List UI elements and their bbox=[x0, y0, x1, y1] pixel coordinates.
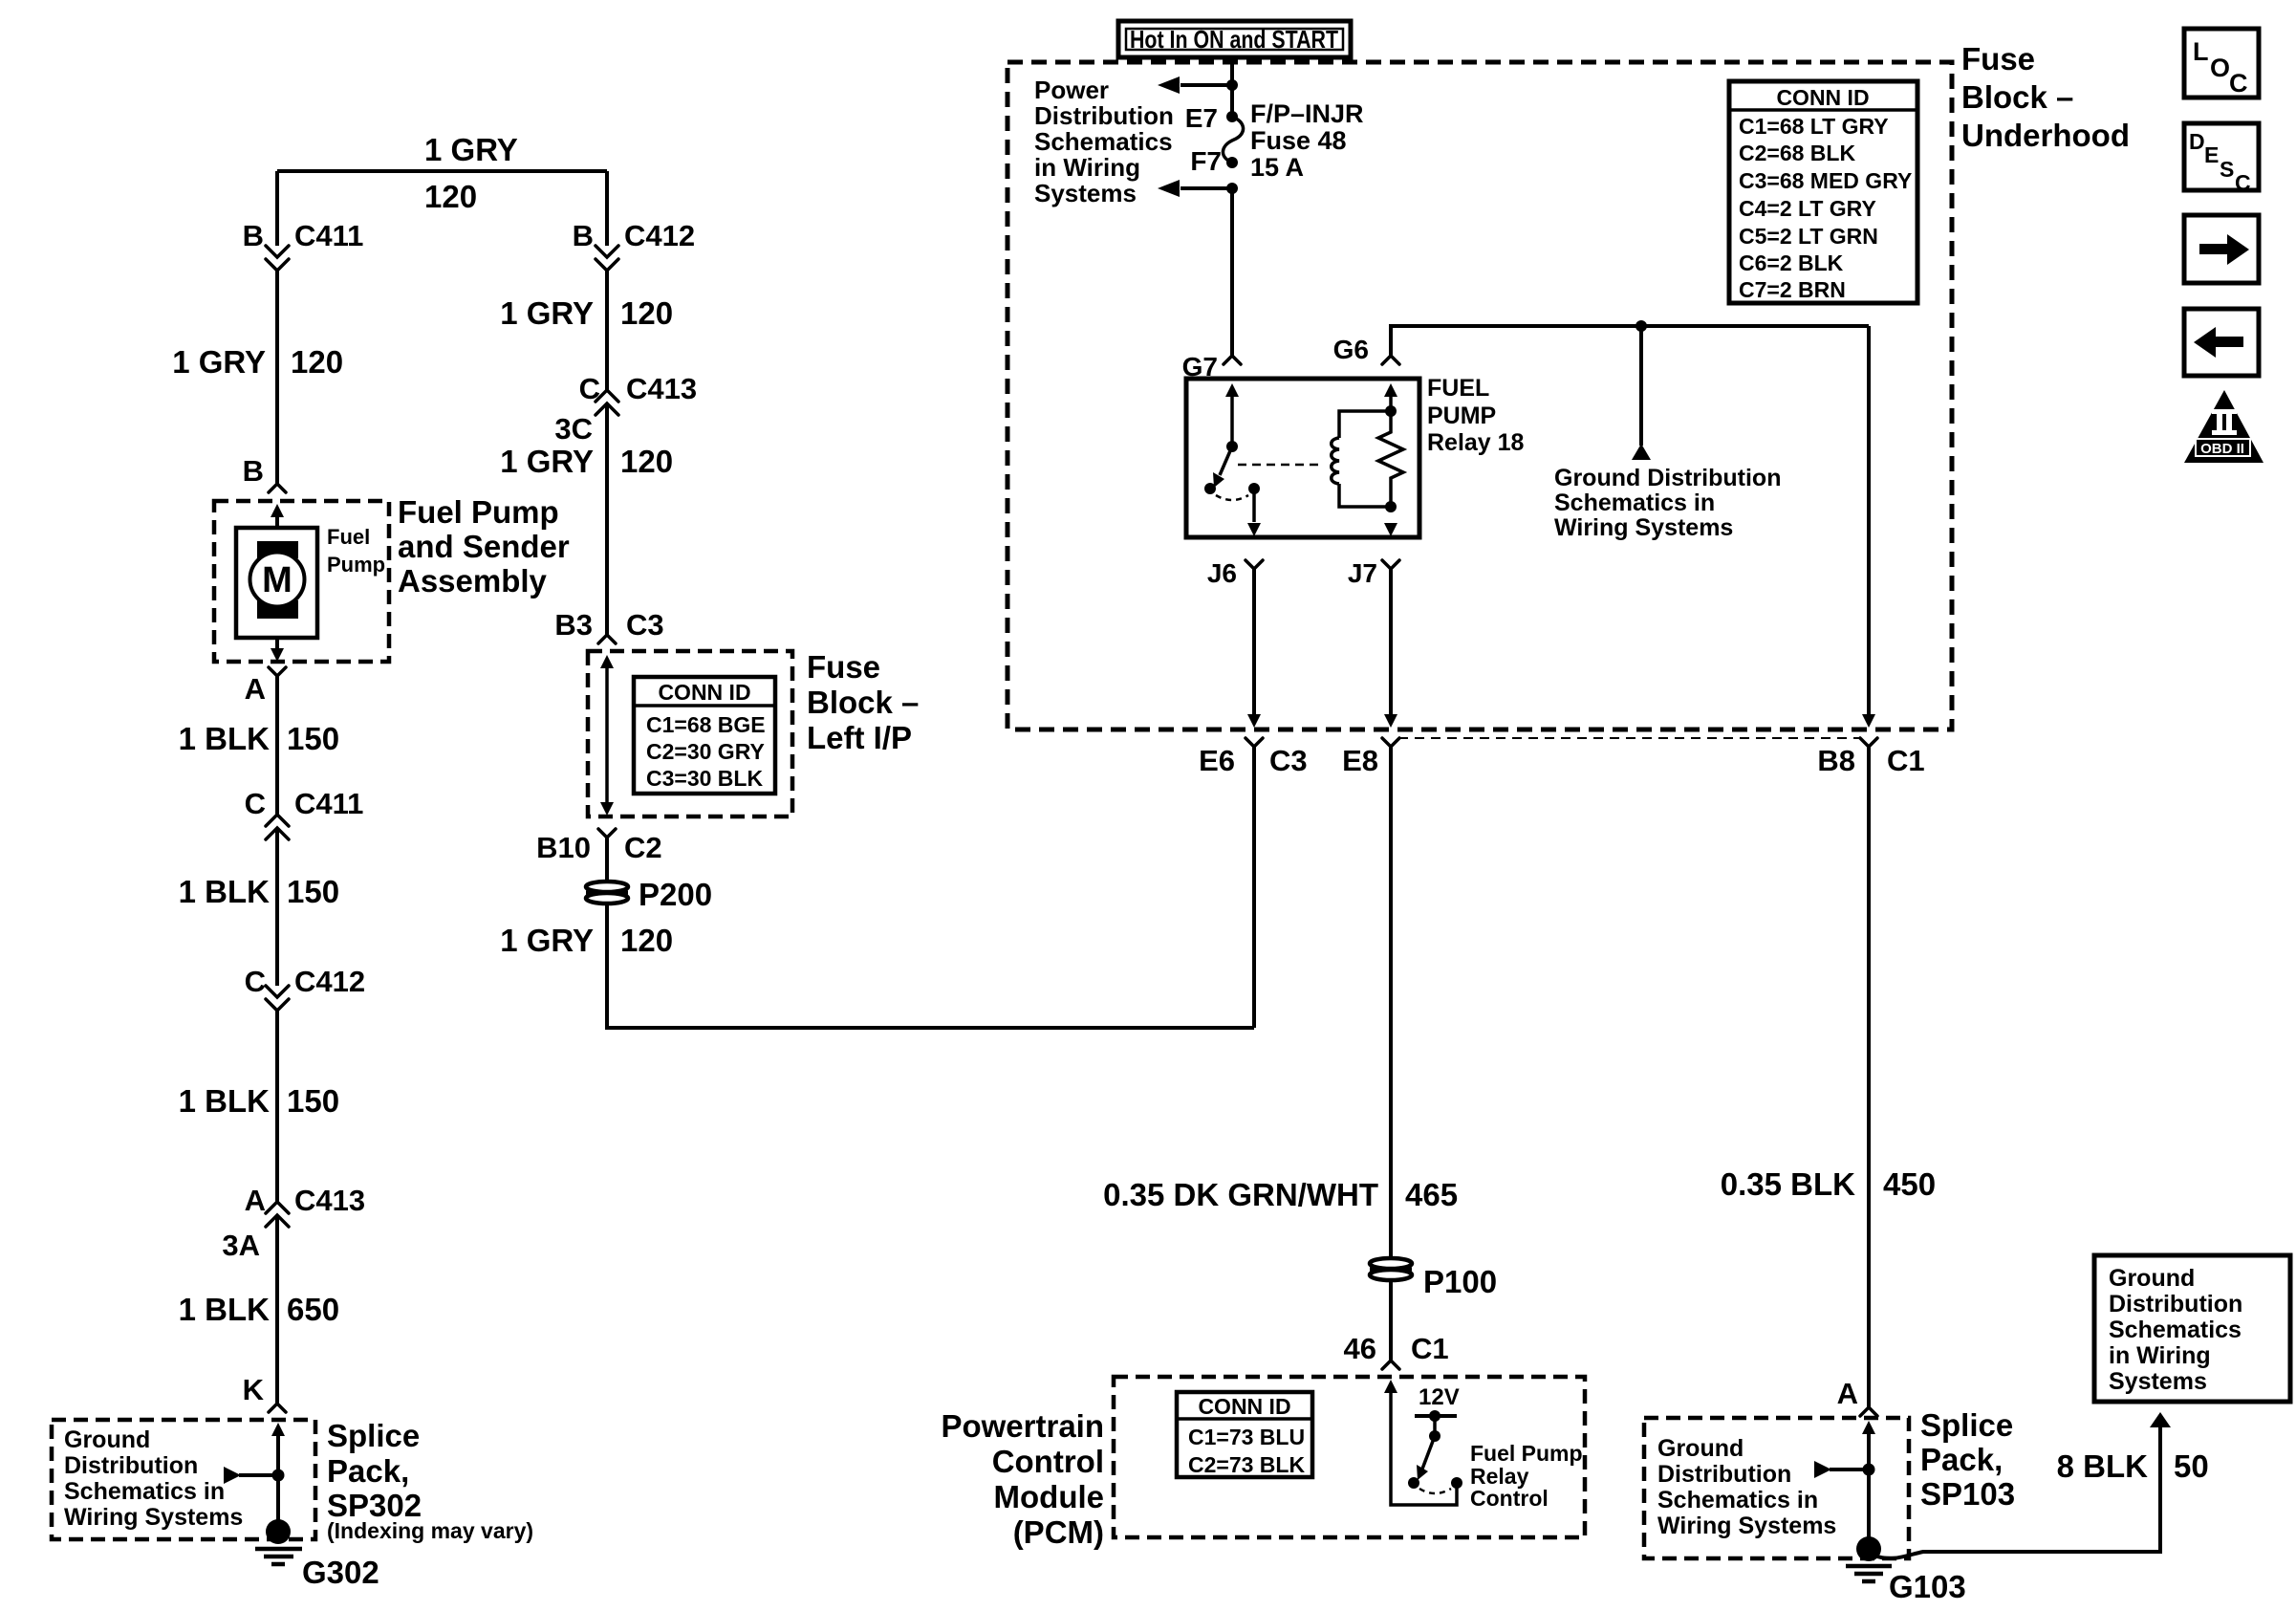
off-page triangle into ground distribution box bbox=[2150, 1412, 2171, 1427]
pin arrow into SP103 (up) bbox=[1862, 1421, 1875, 1434]
ground G302 symbol bbox=[266, 1519, 291, 1544]
svg-text:Hot In ON and START: Hot In ON and START bbox=[1130, 25, 1338, 54]
svg-text:120: 120 bbox=[424, 179, 477, 214]
svg-text:1 BLK: 1 BLK bbox=[179, 1292, 271, 1327]
svg-text:Fuse: Fuse bbox=[807, 649, 880, 685]
pin arrow into PCM (up) bbox=[1384, 1380, 1397, 1393]
wire from fuse down to relay pin G7 bbox=[1230, 188, 1234, 356]
svg-text:15 A: 15 A bbox=[1250, 153, 1304, 182]
junction in SP302 bbox=[272, 1469, 285, 1482]
motor M circle bbox=[250, 553, 305, 607]
svg-text:Wiring Systems: Wiring Systems bbox=[1657, 1513, 1836, 1539]
svg-text:K: K bbox=[243, 1373, 265, 1406]
svg-text:B10: B10 bbox=[536, 831, 591, 864]
svg-text:C3: C3 bbox=[626, 608, 664, 642]
icon: LOC button bbox=[2184, 29, 2259, 98]
svg-text:B8: B8 bbox=[1817, 744, 1855, 777]
svg-text:650: 650 bbox=[287, 1292, 339, 1327]
junction in SP103 bbox=[1863, 1464, 1875, 1476]
svg-text:0.35 DK GRN/WHT: 0.35 DK GRN/WHT bbox=[1103, 1177, 1378, 1212]
wire: middle vertical from top wire to connector C412 bbox=[605, 171, 609, 246]
svg-text:Distribution: Distribution bbox=[2109, 1291, 2242, 1317]
svg-text:CONN ID: CONN ID bbox=[1198, 1394, 1290, 1419]
off-page triangle (ground distribution) bbox=[1632, 444, 1651, 460]
svg-text:C2=73 BLK: C2=73 BLK bbox=[1188, 1452, 1305, 1477]
svg-text:Fuel Pump: Fuel Pump bbox=[398, 494, 559, 530]
svg-text:Schematics in: Schematics in bbox=[1554, 490, 1715, 516]
relay coil bottom node bbox=[1385, 501, 1397, 512]
fuel pump motor outer box bbox=[236, 528, 317, 638]
svg-text:FUEL: FUEL bbox=[1427, 375, 1489, 402]
svg-text:(PCM): (PCM) bbox=[1013, 1514, 1104, 1550]
driver switch pivot node bbox=[1429, 1430, 1440, 1442]
svg-text:C1: C1 bbox=[1887, 744, 1925, 777]
driver switch blade with arrow bbox=[1421, 1436, 1435, 1471]
svg-text:Assembly: Assembly bbox=[398, 563, 548, 599]
relay switch blade with arrow bbox=[1220, 446, 1232, 475]
connector C413 pin C (in-line double chevron up) bbox=[596, 390, 618, 415]
svg-text:Ground Distribution: Ground Distribution bbox=[1554, 465, 1781, 491]
splice bus flag (triangle) SP103 bbox=[1814, 1461, 1831, 1478]
svg-text:Ground: Ground bbox=[1657, 1435, 1744, 1462]
svg-text:C: C bbox=[245, 965, 266, 998]
connector half at relay pin J6 bbox=[1245, 560, 1263, 569]
internal wire through fuse block left I/P with arrows bbox=[600, 655, 614, 668]
svg-text:Block –: Block – bbox=[807, 685, 919, 720]
relay switch contact (right) bbox=[1248, 483, 1260, 494]
connector C413 pin A (in-line double chevron up) bbox=[266, 1202, 289, 1227]
svg-text:C: C bbox=[245, 787, 266, 820]
fuse F/P-INJR Fuse 48 15A (element symbol) bbox=[1223, 117, 1243, 163]
svg-text:C2=30 GRY: C2=30 GRY bbox=[646, 739, 765, 764]
grommet P200 bbox=[586, 882, 628, 903]
svg-text:1 GRY: 1 GRY bbox=[424, 132, 518, 167]
fuse terminal F7 bbox=[1226, 157, 1238, 168]
svg-text:C1=68 LT GRY: C1=68 LT GRY bbox=[1739, 114, 1889, 139]
svg-text:Underhood: Underhood bbox=[1961, 118, 2130, 153]
svg-text:150: 150 bbox=[287, 721, 339, 756]
svg-text:Fuse: Fuse bbox=[1961, 41, 2035, 76]
svg-text:3A: 3A bbox=[222, 1229, 260, 1262]
svg-text:G302: G302 bbox=[302, 1555, 379, 1590]
wire: 1 BLK 650 from C413 to splice pack K bbox=[275, 1215, 279, 1404]
reference box: Ground Distribution Schematics in Wiring Systems bbox=[2094, 1255, 2290, 1402]
svg-text:Distribution: Distribution bbox=[1657, 1461, 1791, 1488]
svg-text:B: B bbox=[243, 454, 264, 488]
svg-text:Splice: Splice bbox=[1920, 1407, 2013, 1443]
splice bus flag (triangle) SP302 bbox=[224, 1467, 241, 1484]
svg-text:1 BLK: 1 BLK bbox=[179, 874, 271, 909]
connector half at relay pin J7 bbox=[1382, 560, 1399, 569]
connector half at relay pin G7 bbox=[1224, 356, 1241, 364]
svg-text:Left I/P: Left I/P bbox=[807, 720, 912, 755]
connector half at fuel pump pin A bbox=[269, 667, 286, 676]
svg-text:B: B bbox=[243, 219, 264, 252]
connector half E6 (below underhood boundary) bbox=[1245, 738, 1263, 747]
svg-text:C3: C3 bbox=[1269, 744, 1308, 777]
relay resistor (in parallel with coil) bbox=[1378, 411, 1403, 507]
svg-text:Fuel Pump: Fuel Pump bbox=[1470, 1441, 1583, 1466]
motor brush (bottom) bbox=[257, 600, 298, 619]
svg-text:C4=2 LT GRY: C4=2 LT GRY bbox=[1739, 196, 1876, 221]
svg-text:Distribution: Distribution bbox=[1034, 101, 1174, 130]
wire J7 down to fuse block boundary E8 bbox=[1389, 569, 1393, 718]
driver switch contact (left) bbox=[1408, 1477, 1419, 1489]
component: Fuel Pump and Sender Assembly (dashed boundary) bbox=[214, 501, 389, 662]
svg-text:Powertrain: Powertrain bbox=[941, 1408, 1104, 1444]
driver switch dashed travel arc bbox=[1419, 1489, 1451, 1493]
svg-text:PUMP: PUMP bbox=[1427, 403, 1496, 429]
svg-text:M: M bbox=[262, 560, 292, 600]
svg-text:C1=73 BLU: C1=73 BLU bbox=[1188, 1425, 1305, 1449]
svg-text:450: 450 bbox=[1883, 1166, 1936, 1202]
wire arrow to power distribution schematics (lower) bbox=[1180, 186, 1232, 190]
svg-text:Pack,: Pack, bbox=[1920, 1442, 2003, 1477]
relay coil pin arrow (from G6) bbox=[1384, 383, 1397, 397]
svg-text:C3=68 MED GRY: C3=68 MED GRY bbox=[1739, 168, 1912, 193]
connector C412 pin B (in-line double chevron) bbox=[596, 246, 618, 271]
svg-text:OBD II: OBD II bbox=[2200, 441, 2244, 457]
svg-text:Power: Power bbox=[1034, 76, 1109, 104]
wire: 1 BLK 150 from C412 to C413 bbox=[275, 1011, 279, 1202]
wire to ground G302 bbox=[276, 1475, 280, 1524]
svg-text:G103: G103 bbox=[1889, 1569, 1966, 1604]
svg-text:120: 120 bbox=[620, 295, 673, 331]
svg-text:1 GRY: 1 GRY bbox=[172, 344, 266, 380]
svg-text:C412: C412 bbox=[294, 965, 365, 998]
connector C411 pin C (in-line double chevron up) bbox=[266, 815, 289, 839]
svg-text:E7: E7 bbox=[1185, 103, 1218, 133]
relay driver right contact node bbox=[1451, 1477, 1462, 1489]
component: Splice Pack SP302 (dashed boundary) bbox=[52, 1420, 315, 1539]
svg-text:A: A bbox=[245, 672, 266, 706]
svg-text:A: A bbox=[245, 1184, 266, 1217]
CONN ID table (PCM) bbox=[1177, 1392, 1312, 1477]
svg-text:Fuse 48: Fuse 48 bbox=[1250, 126, 1347, 155]
junction node on G6 wire bbox=[1635, 320, 1647, 332]
svg-text:C1: C1 bbox=[1411, 1332, 1449, 1365]
relay switch pivot node bbox=[1226, 441, 1238, 452]
svg-text:J7: J7 bbox=[1348, 558, 1377, 588]
svg-text:Schematics in: Schematics in bbox=[64, 1478, 225, 1505]
svg-text:Systems: Systems bbox=[2109, 1368, 2207, 1395]
svg-text:B3: B3 bbox=[554, 608, 593, 642]
svg-text:and Sender: and Sender bbox=[398, 529, 570, 564]
svg-text:D: D bbox=[2189, 129, 2205, 154]
svg-text:(Indexing may vary): (Indexing may vary) bbox=[327, 1518, 533, 1543]
svg-text:Relay 18: Relay 18 bbox=[1427, 429, 1525, 456]
PCM internal wire to relay driver bbox=[1391, 1391, 1457, 1505]
svg-text:Pack,: Pack, bbox=[327, 1453, 409, 1489]
relay mechanical link (dashed) bbox=[1238, 464, 1321, 467]
connector half B8 (below underhood boundary) bbox=[1860, 738, 1877, 747]
svg-text:A: A bbox=[1837, 1377, 1858, 1410]
svg-text:C6=2 BLK: C6=2 BLK bbox=[1739, 250, 1844, 275]
wire arrow to power distribution schematics (upper) bbox=[1180, 83, 1232, 87]
svg-text:E8: E8 bbox=[1342, 744, 1378, 777]
svg-text:Schematics in: Schematics in bbox=[1657, 1487, 1818, 1513]
svg-text:Systems: Systems bbox=[1034, 179, 1137, 207]
wire: 1 GRY 120 segment C413 to fuse block left I/P bbox=[605, 403, 609, 635]
connector C412 pin C (in-line double chevron down) bbox=[266, 986, 289, 1011]
svg-text:C413: C413 bbox=[294, 1184, 365, 1217]
svg-text:L: L bbox=[2193, 37, 2209, 66]
svg-text:E: E bbox=[2204, 142, 2219, 167]
svg-text:O: O bbox=[2210, 54, 2230, 82]
svg-text:C7=2 BRN: C7=2 BRN bbox=[1739, 277, 1846, 302]
relay switch pin arrow (from G7) bbox=[1225, 383, 1239, 397]
connector half at fuse block pin B3 bbox=[598, 635, 616, 643]
connector half at fuse block pin B10 bbox=[598, 829, 616, 838]
svg-text:C1=68 BGE: C1=68 BGE bbox=[646, 712, 766, 737]
svg-text:Fuel: Fuel bbox=[327, 525, 370, 549]
svg-text:Wiring Systems: Wiring Systems bbox=[1554, 514, 1733, 541]
component: Fuse Block - Left I/P (dashed boundary) bbox=[588, 651, 792, 816]
wire from B10 to grommet P200 bbox=[605, 838, 609, 882]
pin arrow out of fuel pump assembly (down) bbox=[275, 638, 279, 650]
svg-text:150: 150 bbox=[287, 1083, 339, 1119]
svg-text:1 GRY: 1 GRY bbox=[500, 295, 594, 331]
svg-text:SP103: SP103 bbox=[1920, 1476, 2015, 1512]
thin dashed boundary link E8 to B8 bbox=[1398, 737, 1861, 739]
wire: 8 BLK 50 from G103 to ground distribution box bbox=[1874, 1425, 2160, 1558]
svg-text:Module: Module bbox=[994, 1479, 1104, 1514]
svg-text:Block –: Block – bbox=[1961, 79, 2073, 115]
wire stub to ground distribution reference bbox=[1639, 326, 1643, 446]
svg-text:Control: Control bbox=[992, 1444, 1104, 1479]
svg-text:120: 120 bbox=[291, 344, 343, 380]
12V supply bar inside PCM bbox=[1415, 1414, 1457, 1418]
ground G103 symbol bbox=[1856, 1536, 1881, 1561]
svg-text:Schematics: Schematics bbox=[1034, 127, 1173, 156]
connector half at relay pin G6 bbox=[1382, 356, 1399, 364]
wire: 1 GRY 120 segment C411 to fuel pump bbox=[275, 271, 279, 484]
icon: OBD II triangle bbox=[2184, 390, 2264, 463]
svg-text:1 BLK: 1 BLK bbox=[179, 721, 271, 756]
connector half at splice pack pin K bbox=[269, 1404, 286, 1412]
wire: 1 BLK 150 from pump A to C411 bbox=[275, 676, 279, 815]
icon: back arrow button bbox=[2184, 309, 2259, 376]
svg-text:P100: P100 bbox=[1423, 1264, 1497, 1299]
svg-text:J6: J6 bbox=[1207, 558, 1237, 588]
svg-text:1 BLK: 1 BLK bbox=[179, 1083, 271, 1119]
svg-text:in Wiring: in Wiring bbox=[2109, 1342, 2211, 1369]
svg-text:C413: C413 bbox=[626, 372, 697, 405]
icon: DESC button bbox=[2184, 123, 2259, 195]
svg-text:Pump: Pump bbox=[327, 553, 385, 577]
svg-text:P200: P200 bbox=[639, 877, 712, 912]
svg-text:1 GRY: 1 GRY bbox=[500, 444, 594, 479]
svg-text:B: B bbox=[573, 219, 594, 252]
CONN ID table (fuse block left I/P) bbox=[634, 677, 775, 794]
12V node bbox=[1429, 1410, 1440, 1422]
component: Powertrain Control Module PCM (dashed boundary) bbox=[1114, 1377, 1585, 1537]
pin arrow into fuel pump assembly (up) bbox=[271, 504, 284, 517]
wire: 0.35 DK GRN/WHT 465 from E8 down to PCM bbox=[1389, 747, 1393, 1361]
component: Splice Pack SP103 (dashed boundary) bbox=[1644, 1418, 1909, 1558]
relay coil top node bbox=[1385, 405, 1397, 417]
svg-text:120: 120 bbox=[620, 444, 673, 479]
CONN ID table (fuse block underhood) bbox=[1729, 81, 1917, 303]
svg-text:C: C bbox=[579, 372, 600, 405]
svg-text:E6: E6 bbox=[1199, 744, 1235, 777]
svg-text:Wiring Systems: Wiring Systems bbox=[64, 1504, 243, 1531]
connector half at fuel pump pin B bbox=[269, 484, 286, 492]
wire: 1 GRY 120 segment C412 to C413 bbox=[605, 271, 609, 390]
svg-text:C5=2 LT GRN: C5=2 LT GRN bbox=[1739, 224, 1878, 249]
svg-text:in Wiring: in Wiring bbox=[1034, 153, 1140, 182]
junction node below fuse bbox=[1226, 183, 1238, 194]
relay switch dashed travel arc bbox=[1216, 495, 1248, 500]
svg-text:S: S bbox=[2220, 157, 2234, 182]
icon: forward arrow button bbox=[2184, 215, 2259, 283]
svg-text:F/P–INJR: F/P–INJR bbox=[1250, 99, 1364, 128]
svg-text:C412: C412 bbox=[624, 219, 695, 252]
svg-text:G6: G6 bbox=[1333, 335, 1369, 364]
connector half at PCM pin 46 bbox=[1382, 1361, 1399, 1369]
svg-text:50: 50 bbox=[2174, 1448, 2209, 1484]
svg-text:8 BLK: 8 BLK bbox=[2057, 1448, 2149, 1484]
svg-text:Control: Control bbox=[1470, 1486, 1549, 1511]
svg-text:C411: C411 bbox=[294, 787, 363, 820]
motor brush (top) bbox=[257, 541, 298, 558]
svg-text:Ground: Ground bbox=[64, 1426, 150, 1453]
svg-text:C2=68 BLK: C2=68 BLK bbox=[1739, 141, 1855, 165]
relay coil branch bbox=[1339, 411, 1391, 507]
fuse terminal E7 bbox=[1226, 111, 1238, 122]
connector half E8 (below underhood boundary) bbox=[1382, 738, 1399, 747]
relay coil output to J7 bbox=[1384, 523, 1397, 536]
svg-text:Distribution: Distribution bbox=[64, 1452, 198, 1479]
svg-text:150: 150 bbox=[287, 874, 339, 909]
svg-text:3C: 3C bbox=[554, 412, 593, 446]
wire from Hot In feed down to fuse bbox=[1230, 57, 1234, 117]
wire J6 down to fuse block boundary E6 bbox=[1252, 569, 1256, 718]
svg-text:C: C bbox=[2229, 69, 2248, 98]
wire from relay pin G6 up and right to B8 branch bbox=[1391, 326, 1869, 718]
svg-text:CONN ID: CONN ID bbox=[658, 680, 750, 705]
svg-text:F7: F7 bbox=[1190, 146, 1222, 176]
wire: 1 GRY 120 top horizontal from C411 branch to C412 branch bbox=[277, 169, 607, 173]
junction node above fuse bbox=[1226, 79, 1238, 91]
svg-text:465: 465 bbox=[1405, 1177, 1458, 1212]
connector half at splice pack pin A bbox=[1860, 1407, 1877, 1416]
relay coil windings bbox=[1332, 438, 1339, 484]
power feed box: Hot In ON and START bbox=[1118, 21, 1351, 57]
svg-text:Ground: Ground bbox=[2109, 1265, 2195, 1292]
svg-text:46: 46 bbox=[1344, 1332, 1376, 1365]
svg-text:Schematics: Schematics bbox=[2109, 1317, 2242, 1343]
relay: FUEL PUMP Relay 18 (box) bbox=[1186, 379, 1419, 537]
wire to ground G103 bbox=[1867, 1469, 1871, 1539]
relay switch output to J6 bbox=[1252, 489, 1256, 522]
svg-text:1 GRY: 1 GRY bbox=[500, 923, 594, 958]
svg-text:C411: C411 bbox=[294, 219, 363, 252]
wire: left vertical segment from top wire to connector C411 bbox=[275, 171, 279, 246]
wire: 0.35 BLK 450 from B8 down to splice pack SP103 bbox=[1867, 747, 1871, 1407]
connector C411 pin B (in-line double chevron) bbox=[266, 246, 289, 271]
svg-text:12V: 12V bbox=[1419, 1384, 1460, 1410]
relay switch contact (left) bbox=[1204, 483, 1216, 494]
svg-text:C: C bbox=[2235, 170, 2251, 195]
grommet P100 bbox=[1370, 1258, 1412, 1280]
svg-text:CONN ID: CONN ID bbox=[1776, 85, 1869, 110]
wire: 1 BLK 150 from C411 to C412 bbox=[275, 828, 279, 986]
svg-text:C2: C2 bbox=[624, 831, 662, 864]
svg-text:C3=30 BLK: C3=30 BLK bbox=[646, 766, 763, 791]
svg-text:Splice: Splice bbox=[327, 1418, 420, 1453]
component: Fuse Block - Underhood (dashed boundary) bbox=[1007, 62, 1952, 729]
wire: 1 GRY 120 from P200 down and right to fuse block underhood E6 bbox=[607, 747, 1254, 1028]
pin arrow into splice pack (up) bbox=[271, 1423, 285, 1436]
svg-text:0.35 BLK: 0.35 BLK bbox=[1721, 1166, 1855, 1202]
svg-text:120: 120 bbox=[620, 923, 673, 958]
